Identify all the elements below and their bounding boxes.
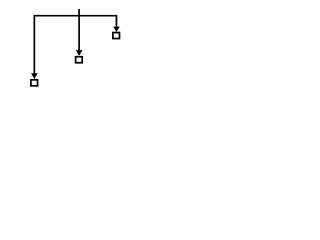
wire: horizontal bus with left and right corner drops <box>34 16 116 74</box>
node B: middle terminal square <box>76 57 83 63</box>
arrowhead right <box>113 27 120 32</box>
node C: right terminal square <box>113 33 120 39</box>
wire: middle drop <box>78 16 80 51</box>
node A: left terminal square <box>31 80 38 86</box>
wire: top stub above horizontal bus <box>78 9 80 16</box>
arrowhead left <box>31 73 38 79</box>
arrowhead middle <box>76 50 83 56</box>
